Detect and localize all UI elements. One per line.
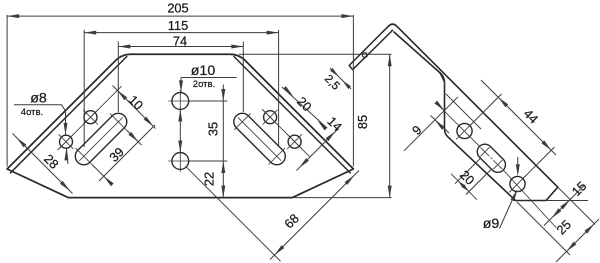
part outline (main view) bbox=[7, 54, 353, 197]
hole O8 A bbox=[83, 110, 98, 125]
dim 44 bbox=[470, 80, 556, 178]
slot left bbox=[75, 113, 126, 164]
side view left leg bbox=[349, 26, 392, 69]
svg-text:10: 10 bbox=[126, 92, 147, 113]
side view right leg inner bbox=[394, 32, 558, 201]
hole O9 no2 bbox=[509, 176, 526, 193]
wing slot bbox=[477, 144, 505, 172]
svg-text:15: 15 bbox=[569, 178, 590, 199]
svg-text:ø9: ø9 bbox=[483, 216, 500, 232]
dim 74 bbox=[118, 34, 243, 112]
svg-text:39: 39 bbox=[106, 144, 127, 165]
dim 20 wing bbox=[451, 158, 492, 200]
centerline holes right bbox=[262, 109, 310, 157]
hole O9 no1 bbox=[456, 123, 473, 140]
svg-text:25: 25 bbox=[553, 217, 574, 238]
dim 85 bbox=[239, 54, 392, 197]
hole O8 A2 bbox=[263, 110, 278, 125]
slot right bbox=[234, 113, 285, 164]
bend line right bbox=[234, 57, 350, 173]
svg-text:14: 14 bbox=[324, 113, 345, 134]
dim 205 bbox=[7, 1, 353, 167]
svg-text:20: 20 bbox=[457, 167, 478, 188]
svg-text:28: 28 bbox=[41, 151, 62, 172]
dim 25 bbox=[517, 202, 599, 262]
hole O10 lower bbox=[168, 150, 192, 172]
dim 39 bbox=[92, 125, 155, 186]
side view outer surface bbox=[388, 24, 558, 187]
dim 115 bbox=[84, 18, 278, 147]
dim 2.5 bbox=[322, 68, 351, 93]
bend line left bbox=[11, 57, 127, 173]
dim 15 bbox=[544, 178, 595, 225]
label O8 bbox=[14, 91, 68, 135]
svg-text:74: 74 bbox=[173, 34, 187, 49]
wing fold line bbox=[446, 94, 481, 129]
svg-text:ø8: ø8 bbox=[30, 91, 47, 107]
dim 20 main bbox=[282, 86, 327, 130]
svg-text:35: 35 bbox=[206, 122, 221, 136]
svg-text:115: 115 bbox=[168, 18, 188, 33]
dim 10 bbox=[113, 86, 156, 129]
svg-text:ø10: ø10 bbox=[191, 63, 216, 79]
hole O10 upper bbox=[168, 90, 192, 112]
dim 14 bbox=[297, 113, 346, 170]
label O10 bbox=[179, 63, 237, 92]
svg-text:9: 9 bbox=[409, 122, 425, 138]
svg-text:68: 68 bbox=[281, 211, 302, 232]
wing centreline bbox=[438, 105, 557, 228]
dim 68 bbox=[187, 167, 360, 261]
hole O8 B2 bbox=[287, 134, 302, 149]
svg-text:205: 205 bbox=[167, 1, 188, 16]
svg-text:2отв.: 2отв. bbox=[193, 79, 215, 90]
svg-text:4отв.: 4отв. bbox=[21, 107, 43, 118]
dim 35 and 22 bbox=[189, 85, 228, 198]
dim 28 bbox=[13, 134, 73, 194]
svg-text:20: 20 bbox=[294, 94, 315, 115]
label O9 bbox=[483, 157, 520, 232]
centerline holes left bbox=[58, 86, 122, 150]
svg-text:85: 85 bbox=[355, 115, 370, 129]
hole O8 B bbox=[59, 134, 74, 164]
arrow pair O10 bbox=[178, 110, 182, 153]
bend mark bbox=[440, 73, 445, 82]
svg-text:2,5: 2,5 bbox=[322, 73, 342, 93]
side view bend knob bbox=[362, 53, 367, 58]
dim 9 bbox=[404, 97, 458, 151]
